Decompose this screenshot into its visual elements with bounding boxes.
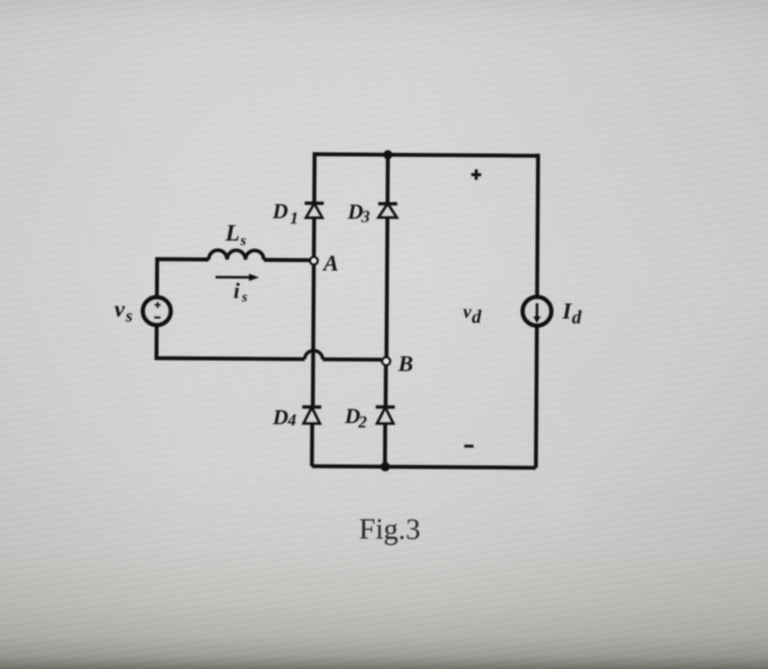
- label vs: [114, 297, 133, 326]
- label D2: [344, 404, 368, 432]
- svg-text:3: 3: [360, 207, 370, 226]
- arrow is: [216, 274, 260, 282]
- minus sign output: [464, 445, 473, 448]
- svg-text:A: A: [321, 250, 338, 275]
- wire hop to node B: [323, 357, 382, 361]
- wire left leg upper (top rail to D1): [312, 152, 316, 203]
- wire left leg (D1 to node A): [312, 218, 316, 257]
- wire left leg lower (D4 to bottom rail): [310, 424, 314, 467]
- wire bridge leg (node B to D2): [384, 366, 388, 406]
- svg-text:d: d: [572, 307, 582, 328]
- wire vs bottom (vs to hop): [156, 324, 304, 359]
- wire bottom rail: [312, 466, 536, 468]
- svg-text:L: L: [224, 220, 240, 246]
- inductor Ls: [209, 250, 264, 260]
- label vd: [463, 302, 482, 328]
- node B: [382, 357, 390, 365]
- label B: [397, 351, 413, 376]
- diode D2: [376, 407, 395, 424]
- wire bridge leg upper (top rail to D3): [386, 153, 390, 204]
- label Id: [561, 298, 582, 328]
- svg-text:i: i: [233, 278, 240, 303]
- label D1: [271, 199, 298, 228]
- wire vs top (vs to inductor): [157, 259, 209, 298]
- wire hop over left leg: [305, 351, 323, 360]
- diode D4: [302, 407, 321, 424]
- diode D1: [305, 203, 324, 218]
- current source Id: [523, 297, 552, 326]
- wire top rail: [315, 154, 538, 156]
- junction dot bottom: [380, 462, 389, 471]
- wire inductor to node A: [264, 258, 309, 262]
- voltage source vs: [143, 297, 171, 325]
- svg-text:s: s: [125, 306, 133, 326]
- node A: [310, 257, 318, 265]
- wire bridge leg lower (D2 to bottom rail): [383, 424, 387, 467]
- svg-text:s: s: [241, 290, 248, 305]
- wire left leg (node A to D4): [311, 265, 316, 405]
- svg-text:B: B: [397, 351, 413, 376]
- svg-text:2: 2: [357, 413, 367, 432]
- wire right leg upper (top rail to Id): [537, 154, 538, 298]
- wire right leg lower (Id to bottom rail): [536, 324, 537, 467]
- svg-text:D: D: [271, 199, 288, 223]
- junction dot top: [383, 150, 392, 159]
- svg-text:I: I: [561, 298, 572, 323]
- svg-text:d: d: [472, 307, 482, 328]
- svg-text:v: v: [114, 297, 125, 322]
- plus sign output: [471, 169, 481, 180]
- svg-text:1: 1: [290, 209, 299, 228]
- wire bridge leg (D3 to node B): [385, 218, 390, 357]
- caption Fig.3: [359, 514, 421, 546]
- label D4: [272, 405, 297, 429]
- svg-text:s: s: [239, 233, 246, 249]
- label is: [233, 278, 248, 305]
- svg-text:Fig.3: Fig.3: [359, 514, 421, 546]
- svg-text:D: D: [272, 405, 289, 429]
- label A: [321, 250, 338, 275]
- svg-text:4: 4: [287, 411, 297, 430]
- label Ls: [224, 220, 246, 249]
- label D3: [347, 200, 371, 226]
- diode D3: [378, 203, 397, 217]
